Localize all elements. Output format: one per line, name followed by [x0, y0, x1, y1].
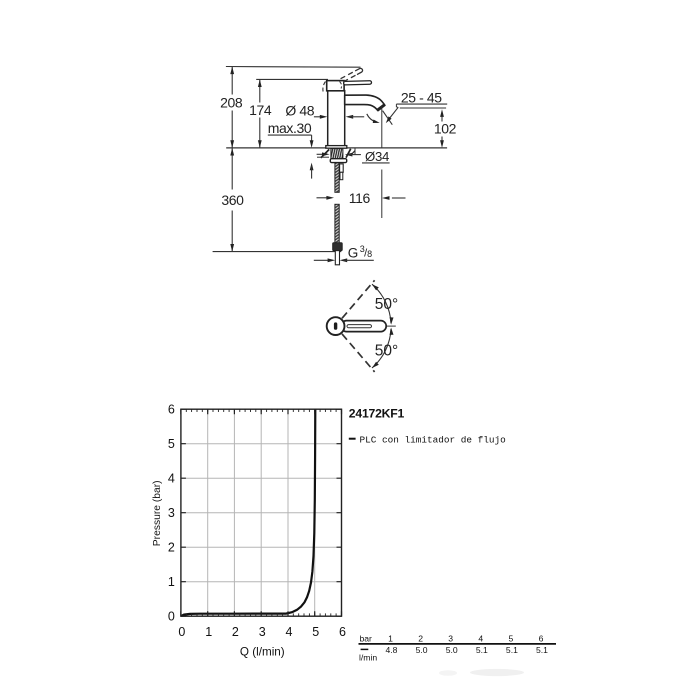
svg-text:5.0: 5.0 — [416, 645, 428, 655]
dim G3/8 right arrow — [340, 258, 348, 262]
dim 360 bottom extension line — [213, 251, 342, 253]
deck mounting surface line — [226, 147, 447, 149]
connector lower — [340, 172, 343, 179]
svg-text:360: 360 — [221, 192, 244, 208]
dim 34 label underline — [362, 162, 390, 164]
dim 116 left arrow — [317, 197, 331, 199]
svg-text:4: 4 — [478, 633, 483, 643]
svg-text:1: 1 — [168, 575, 175, 589]
spout outlet level line — [400, 107, 446, 109]
svg-text:50°: 50° — [375, 342, 398, 359]
mounting flange washer — [330, 159, 346, 163]
svg-text:4: 4 — [286, 625, 293, 639]
dim 174 vertical line — [259, 79, 261, 102]
handle swing arc dashes left of cap — [323, 82, 326, 93]
svg-text:102: 102 — [434, 121, 457, 137]
section slash left — [321, 149, 329, 158]
svg-text:PLC con limitador de flujo: PLC con limitador de flujo — [360, 434, 507, 445]
dim 208 extension line (top of raised handle) — [226, 66, 361, 69]
dim G3/8 left arrow — [314, 259, 331, 261]
chart ticks — [181, 409, 342, 616]
svg-text:2: 2 — [232, 625, 239, 639]
dim 116 right arrow — [382, 196, 390, 200]
hose end nut — [333, 243, 343, 251]
svg-text:2: 2 — [418, 633, 423, 643]
top view lever — [341, 321, 386, 332]
section slash right small — [351, 151, 355, 156]
svg-text:0: 0 — [168, 610, 175, 624]
G3/8 thread stub — [335, 251, 339, 265]
stream direction line — [383, 111, 393, 125]
dim 174 extension line — [256, 78, 328, 80]
dim 48 arrows — [314, 116, 324, 118]
chart frame — [181, 409, 342, 616]
svg-text:2: 2 — [168, 541, 175, 555]
flow chart — [152, 403, 556, 663]
svg-text:25 - 45: 25 - 45 — [401, 90, 442, 106]
flow curve — [181, 409, 315, 616]
stream adjust curved arrow — [367, 114, 377, 122]
dim 34 leader step — [354, 148, 356, 154]
svg-text:5: 5 — [168, 437, 175, 451]
svg-text:5.1: 5.1 — [476, 645, 488, 655]
svg-text:3: 3 — [448, 633, 453, 643]
svg-text:1: 1 — [205, 625, 212, 639]
svg-text:max.30: max.30 — [268, 120, 312, 136]
svg-text:6: 6 — [339, 625, 346, 639]
chart gridlines — [181, 409, 342, 616]
angle arc upper — [372, 284, 391, 323]
faucet side view — [213, 67, 457, 265]
handle swing arc inside cap — [340, 82, 342, 89]
svg-text:Pressure (bar): Pressure (bar) — [152, 480, 163, 546]
svg-text:bar: bar — [360, 633, 373, 643]
svg-text:208: 208 — [220, 94, 243, 110]
top view lever slot — [347, 325, 372, 328]
svg-text:24172KF1: 24172KF1 — [349, 407, 405, 421]
svg-text:6: 6 — [539, 633, 544, 643]
spout — [345, 95, 385, 111]
leader 25-45 — [396, 104, 398, 108]
svg-text:8: 8 — [367, 249, 372, 259]
dim 34 left arrow — [317, 153, 326, 155]
top view body circle — [327, 317, 345, 335]
svg-text:116: 116 — [349, 190, 371, 206]
svg-text:5: 5 — [312, 625, 319, 639]
max.30 underline — [268, 134, 312, 136]
table divider line — [359, 643, 557, 645]
phantom 50 down dashed line — [342, 334, 375, 372]
phantom raised lever dashes — [341, 68, 364, 83]
svg-text:5.1: 5.1 — [536, 645, 548, 655]
spout tip extension line — [381, 107, 383, 148]
top view pin slot — [334, 322, 337, 329]
svg-text:3: 3 — [259, 625, 266, 639]
svg-text:5.0: 5.0 — [446, 645, 458, 655]
svg-text:Q (l/min): Q (l/min) — [240, 645, 285, 658]
axis line right — [387, 325, 396, 327]
threaded shank — [331, 149, 343, 159]
svg-text:4: 4 — [168, 472, 175, 486]
svg-text:1: 1 — [388, 633, 393, 643]
svg-text:5: 5 — [509, 633, 514, 643]
lever handle — [344, 81, 372, 85]
svg-text:174: 174 — [249, 102, 272, 118]
flex hose lower segment — [335, 204, 339, 243]
faint smudge — [470, 669, 524, 676]
faucet base flange — [326, 146, 347, 149]
dim 34 right arrow — [345, 153, 353, 157]
flange edge line left — [317, 156, 329, 158]
flex hose upper segment — [335, 163, 339, 192]
angle arc lower — [372, 329, 391, 368]
cartridge cap — [327, 81, 344, 91]
legend line — [349, 438, 356, 440]
svg-text:6: 6 — [168, 403, 175, 417]
aerator face — [377, 105, 384, 110]
svg-text:0: 0 — [178, 625, 185, 639]
connector upper — [340, 164, 344, 172]
svg-text:l/min: l/min — [359, 653, 377, 663]
dim 25-45 underline — [396, 103, 447, 105]
table legend dash — [361, 648, 369, 650]
dim 102 vertical line — [441, 113, 443, 122]
svg-text:50°: 50° — [375, 296, 398, 313]
svg-text:3: 3 — [168, 506, 175, 520]
svg-text:G: G — [348, 245, 359, 260]
svg-text:Ø 48: Ø 48 — [285, 102, 314, 118]
phantom 50 up dashed line — [342, 280, 375, 318]
top view handle diagram — [327, 280, 399, 372]
dim 360 vertical line — [231, 148, 233, 190]
faucet body cylinder — [328, 91, 345, 146]
svg-text:Ø34: Ø34 — [365, 149, 389, 164]
section slash right — [346, 149, 351, 158]
svg-text:5.1: 5.1 — [506, 645, 518, 655]
svg-text:4.8: 4.8 — [386, 645, 398, 655]
max.30 lower arrow — [310, 163, 314, 171]
dim 208 vertical line — [231, 67, 233, 95]
max.30 leader down — [311, 135, 313, 141]
